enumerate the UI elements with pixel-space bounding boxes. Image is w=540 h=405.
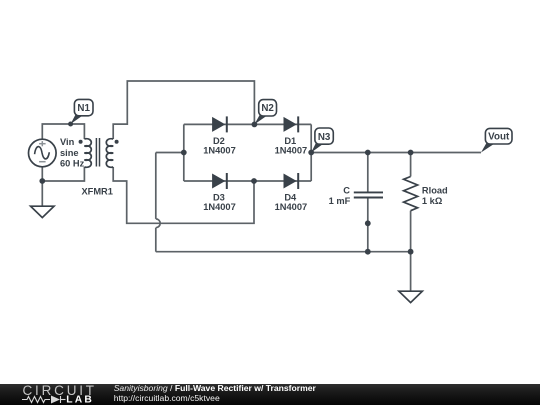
svg-text:http://circuitlab.com/c5ktvee: http://circuitlab.com/c5ktvee	[114, 393, 220, 403]
svg-text:1N4007: 1N4007	[275, 146, 308, 156]
svg-text:N3: N3	[318, 132, 331, 143]
svg-text:D4: D4	[284, 192, 297, 202]
svg-text:60 Hz: 60 Hz	[60, 159, 85, 169]
svg-text:LAB: LAB	[66, 394, 94, 405]
svg-text:sine: sine	[60, 148, 79, 158]
svg-text:Vin: Vin	[60, 137, 75, 147]
svg-text:N1: N1	[77, 103, 90, 114]
svg-text:D1: D1	[284, 136, 296, 146]
svg-text:D2: D2	[213, 136, 225, 146]
svg-text:1N4007: 1N4007	[275, 202, 308, 212]
svg-text:1 mF: 1 mF	[329, 196, 351, 206]
svg-text:Rload: Rload	[422, 186, 448, 196]
svg-text:Vout: Vout	[488, 132, 510, 143]
svg-text:1N4007: 1N4007	[203, 202, 236, 212]
svg-text:N2: N2	[261, 103, 274, 114]
svg-text:D3: D3	[213, 192, 225, 202]
svg-text:XFMR1: XFMR1	[81, 186, 113, 196]
svg-text:1N4007: 1N4007	[203, 146, 236, 156]
svg-text:C: C	[343, 186, 350, 196]
svg-text:Sanityisboring / Full-Wave Rec: Sanityisboring / Full-Wave Rectifier w/ …	[114, 383, 317, 393]
svg-text:1 kΩ: 1 kΩ	[422, 196, 443, 206]
